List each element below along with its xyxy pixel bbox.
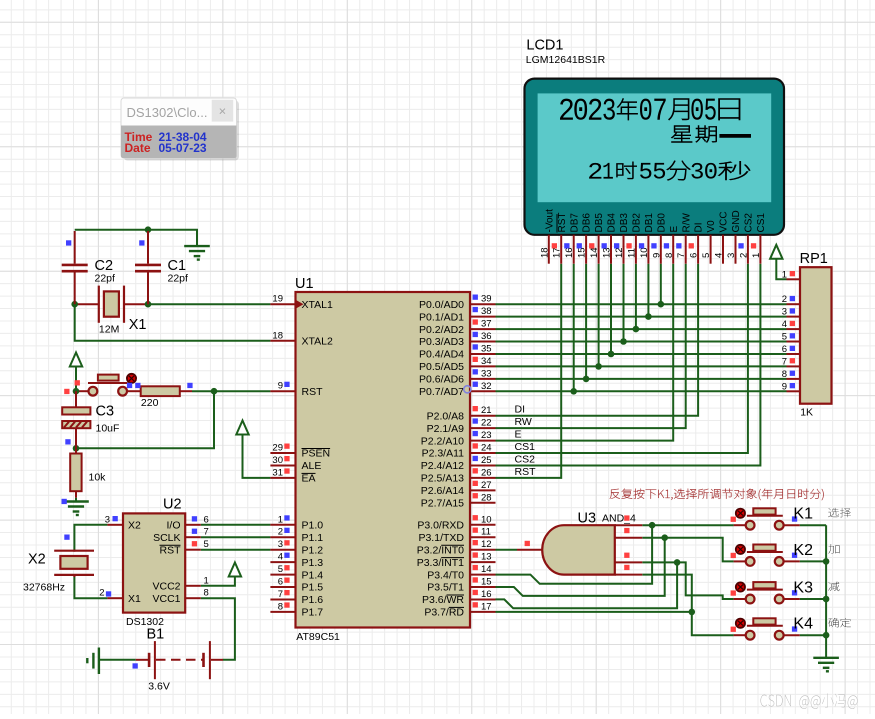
U1 pin 4 (P1.3)	[270, 552, 323, 569]
wire RW net (U1 P2.1 to LCD pin7)	[496, 264, 686, 428]
RP1 pin 6	[782, 344, 800, 355]
svg-text:38: 38	[481, 306, 492, 317]
U1 pin 10 (P3.0/RXD)	[417, 514, 495, 531]
crystal X2 32768Hz	[54, 550, 94, 578]
LCD1 pin 15 (DB6)	[577, 213, 593, 264]
svg-text:8: 8	[278, 601, 283, 612]
svg-text:5: 5	[782, 332, 787, 343]
svg-text:32768Hz: 32768Hz	[23, 582, 65, 594]
wire AND output to U1 P3.2/INT0	[496, 549, 518, 551]
svg-text:DS1302\Clo...: DS1302\Clo...	[127, 105, 208, 120]
label 减 (K3)	[828, 582, 839, 591]
svg-text:PSEN: PSEN	[302, 448, 331, 460]
wire LCD DB2 column	[635, 264, 637, 329]
wire P0.7/AD7 net (U1 to LCD DB7 and RP1.9)	[496, 390, 787, 392]
U1 pin 13 (P3.3/INT1)	[417, 552, 496, 569]
wire U2 VCC1 to battery	[201, 598, 235, 660]
wire U2 I/O to U1 P1.0	[201, 524, 271, 526]
svg-text:P1.7: P1.7	[302, 607, 324, 619]
svg-text:18: 18	[272, 330, 283, 341]
svg-text:DB4: DB4	[607, 213, 618, 233]
push button K1	[731, 506, 813, 530]
svg-text:×: ×	[219, 104, 227, 119]
U1 pin 6 (P1.5)	[270, 577, 323, 594]
svg-text:17: 17	[552, 247, 563, 258]
LCD1 pin 5 (V0)	[701, 220, 717, 264]
capacitor C1	[135, 231, 188, 304]
power VCC arrow (reset)	[70, 353, 82, 392]
AND gate U3 (AND_4, mirrored)	[542, 511, 636, 575]
U2 pin 3 (X2)	[105, 514, 141, 531]
svg-text:39: 39	[481, 294, 492, 305]
svg-text:P2.0/A8: P2.0/A8	[427, 410, 465, 422]
junction DB6/P0.6	[583, 376, 590, 383]
U1 pin 34 (P0.5/AD5)	[419, 356, 495, 373]
svg-text:K3: K3	[793, 580, 813, 597]
junction DB5/P0.5	[595, 363, 602, 370]
LCD1 pin 9 (DB0)	[651, 213, 667, 264]
junction K1/T0	[649, 522, 656, 529]
svg-text:12: 12	[614, 247, 625, 258]
wire XTAL1 net (crystal to U1.19)	[75, 303, 271, 305]
svg-text:05-07-23: 05-07-23	[159, 141, 207, 155]
svg-text:RST: RST	[160, 544, 182, 556]
U1 pin 35 (P0.4/AD4)	[419, 344, 495, 361]
svg-text:7: 7	[782, 356, 787, 367]
svg-text:VCC1: VCC1	[152, 593, 180, 605]
junction K3/WR	[674, 559, 681, 566]
junction DB7/P0.7	[570, 388, 577, 395]
svg-text:16: 16	[564, 247, 575, 258]
svg-text:P0.1/AD1: P0.1/AD1	[419, 311, 464, 323]
U1 pin 25 (P2.4/A12)	[421, 455, 496, 472]
svg-text:28: 28	[481, 492, 492, 503]
svg-text:15: 15	[481, 577, 492, 588]
svg-text:RST: RST	[302, 386, 324, 398]
svg-text:4: 4	[278, 552, 283, 563]
svg-text:I/O: I/O	[166, 520, 180, 532]
wire battery negative to ground	[99, 659, 136, 661]
svg-text:K4: K4	[793, 616, 813, 633]
svg-text:P0.3/AD3: P0.3/AD3	[419, 336, 464, 348]
junction DB2/P0.2	[633, 326, 640, 333]
svg-text:XTAL2: XTAL2	[302, 336, 333, 348]
wire XTAL top net C2-C1-ground	[75, 230, 197, 246]
svg-text:U3: U3	[578, 511, 597, 527]
svg-text:X2: X2	[128, 520, 141, 532]
U1 pin 39 (P0.0/AD0)	[419, 294, 495, 311]
wire P0.0/AD0 net (U1 to LCD DB0 and RP1.2)	[496, 303, 787, 305]
LCD1 pin 4 (VCC)	[714, 211, 730, 263]
svg-text:36: 36	[481, 331, 492, 342]
power VCC arrow (U1 EA)	[236, 421, 270, 478]
resistor 220	[141, 386, 180, 409]
svg-text:AT89C51: AT89C51	[296, 631, 340, 643]
U1 pin 18 (XTAL2)	[270, 330, 333, 347]
svg-text:Date: Date	[125, 141, 151, 155]
U1 pin 21 (P2.0/A8)	[427, 405, 496, 422]
svg-text:10k: 10k	[89, 472, 107, 484]
LCD1 pin 8 (E)	[664, 226, 680, 264]
svg-text:7: 7	[676, 253, 687, 258]
RP1 pin 8	[782, 369, 800, 380]
junction C3/10k	[73, 445, 80, 452]
U1 pin 5 (P1.4)	[270, 564, 323, 581]
push button K3	[731, 580, 813, 604]
U1 pin 23 (P2.2/A10)	[421, 430, 496, 447]
RP1 pin 7	[782, 356, 800, 367]
ground (battery, left-pointing)	[87, 648, 99, 675]
U1 pin 8 (P1.7)	[270, 601, 323, 618]
U1 pin 29 (PSEN)	[270, 443, 330, 460]
wire LCD DB3 column	[623, 264, 625, 342]
svg-text:P0.5/AD5: P0.5/AD5	[419, 361, 464, 373]
wire LCD DB1 column	[647, 264, 649, 317]
wire U2 RST to U1 P1.2	[201, 549, 271, 551]
svg-text:5: 5	[278, 564, 283, 575]
svg-text:P3.0/RXD: P3.0/RXD	[417, 520, 464, 532]
svg-text:6: 6	[782, 344, 787, 355]
svg-text:5: 5	[204, 539, 209, 550]
junction rail/K4	[823, 632, 830, 639]
power VCC arrow (U2 VCC2)	[201, 563, 241, 586]
svg-text:P2.2/A10: P2.2/A10	[421, 435, 464, 447]
label X2	[28, 552, 46, 568]
svg-text:15: 15	[577, 247, 588, 258]
U1 pin 38 (P0.1/AD1)	[419, 306, 495, 323]
svg-text:31: 31	[272, 467, 283, 478]
U1 pin 32 (P0.7/AD7)	[419, 381, 495, 398]
svg-text:220: 220	[141, 397, 159, 409]
U1 pin 11 (P3.1/TXD)	[418, 527, 495, 544]
svg-text:P3.2/INT0: P3.2/INT0	[417, 544, 464, 556]
junction rail/K2	[823, 558, 830, 565]
svg-text:23: 23	[481, 430, 492, 441]
junction X1 right	[145, 301, 152, 308]
LCD1 pin 1 (CS1)	[751, 213, 767, 264]
watermark CSDN	[761, 693, 858, 708]
svg-text:P0.0/AD0: P0.0/AD0	[419, 299, 464, 311]
U1 pin 36 (P0.3/AD3)	[419, 331, 495, 348]
wire DI net (U1 P2.0 to LCD pin6)	[496, 264, 699, 416]
label 选择 (K1)	[828, 508, 851, 517]
svg-text:21: 21	[481, 405, 492, 416]
svg-text:4: 4	[782, 319, 787, 330]
wire P0.1/AD1 net (U1 to LCD DB1 and RP1.3)	[496, 316, 787, 318]
svg-text:10: 10	[639, 247, 650, 258]
svg-text:P3.7/RD: P3.7/RD	[424, 607, 464, 619]
U1 pin 16 (P3.6/WR)	[422, 589, 496, 606]
svg-text:DB1: DB1	[644, 213, 655, 233]
svg-text:2: 2	[738, 253, 749, 258]
LCD1 pin 12 (DB3)	[614, 213, 630, 264]
svg-text:P3.3/INT1: P3.3/INT1	[417, 557, 464, 569]
U1 pin 33 (P0.6/AD6)	[419, 368, 495, 385]
U1 pin 3 (P1.2)	[270, 539, 323, 556]
svg-text:R/W: R/W	[681, 213, 692, 233]
U1 pin 15 (P3.5/T1)	[427, 577, 495, 594]
annotation text: press K1 to select object to adjust	[610, 489, 824, 501]
svg-text:AND_4: AND_4	[602, 513, 636, 525]
state square (battery)	[133, 663, 138, 668]
net label CS2	[515, 453, 536, 465]
ground (10k)	[63, 498, 89, 515]
RP1 pin 5	[782, 332, 800, 343]
svg-text:LCD1: LCD1	[526, 38, 563, 54]
svg-text:P0.6/AD6: P0.6/AD6	[419, 374, 464, 386]
LCD1 pin 17 (RST)	[552, 213, 568, 264]
svg-text:RW: RW	[515, 416, 532, 428]
svg-text:P2.1/A9: P2.1/A9	[427, 423, 465, 435]
wire U2 SCLK to U1 P1.1	[201, 536, 271, 538]
svg-text:8: 8	[204, 588, 209, 599]
state squares (reset 220 resistor)	[127, 383, 193, 388]
wire K2 right terminal to rail	[800, 560, 826, 562]
svg-text:DB5: DB5	[594, 213, 605, 233]
junction X1 left	[71, 301, 78, 308]
svg-text:CS1: CS1	[756, 213, 767, 233]
LCD1 pin 6 (DI)	[689, 223, 705, 264]
svg-text:VCC: VCC	[719, 211, 730, 232]
U1 pin 24 (P2.3/A11)	[422, 443, 496, 460]
svg-text:10uF: 10uF	[96, 423, 120, 435]
U2 pin 7 (SCLK)	[153, 527, 209, 544]
junction DB0/P0.0	[658, 301, 665, 308]
push button K2	[731, 542, 813, 566]
svg-text:1: 1	[278, 514, 283, 525]
svg-text:8: 8	[782, 369, 787, 380]
wire AND in2 / K2 net	[642, 538, 733, 562]
svg-text:16: 16	[481, 589, 492, 600]
svg-text:P3.4/T0: P3.4/T0	[427, 569, 464, 581]
net label RST	[515, 466, 537, 478]
svg-text:6: 6	[278, 577, 283, 588]
battery B1 3.6V	[136, 627, 223, 693]
U3 input pin 3	[615, 553, 643, 563]
svg-text:P1.4: P1.4	[302, 569, 324, 581]
U2 pin 2 (X1)	[99, 588, 141, 605]
junction RST/R220	[211, 388, 218, 395]
svg-text:6: 6	[204, 514, 209, 525]
svg-text:P2.4/A12: P2.4/A12	[421, 460, 464, 472]
junction DB3/P0.3	[620, 338, 627, 345]
U3 input pin 1	[615, 515, 643, 525]
svg-text:5: 5	[701, 253, 712, 258]
junction K2/T1	[661, 534, 668, 541]
wire AND in3 / K3 net	[642, 562, 733, 599]
wire XTAL2 net (C2 to U1.18)	[75, 304, 271, 341]
ground (buttons rail)	[813, 658, 839, 672]
push button K4	[731, 616, 813, 640]
LCD1 pin 16 (DB7)	[564, 213, 580, 264]
wire P0.6/AD6 net (U1 to LCD DB6 and RP1.8)	[496, 378, 787, 380]
wire LCD DB5 column	[598, 264, 600, 367]
unconnected-pin marker at U1 pin 32	[464, 386, 471, 393]
svg-text:P2.3/A11: P2.3/A11	[422, 448, 465, 460]
wire P3.5/T1 jog to K2 net	[496, 538, 665, 596]
svg-text:P3.1/TXD: P3.1/TXD	[418, 532, 464, 544]
wire P3.6/WR jog to K3 net	[496, 562, 678, 608]
svg-text:P2.7/A15: P2.7/A15	[421, 498, 464, 510]
svg-text:RP1: RP1	[800, 251, 828, 267]
U3 input pin 2	[615, 528, 643, 538]
wire C3 bottom to RST net	[76, 391, 214, 448]
wire LCD DB6 column	[585, 264, 587, 379]
U1 pin 17 (P3.7/RD)	[424, 601, 495, 618]
svg-text:K1: K1	[793, 506, 813, 523]
wire K3 right terminal to rail	[800, 598, 826, 600]
U1 pin 22 (P2.1/A9)	[427, 418, 496, 435]
svg-text:1: 1	[782, 269, 787, 280]
wire K4 right terminal to rail	[800, 634, 826, 636]
svg-text:ALE: ALE	[302, 460, 322, 472]
svg-text:33: 33	[481, 368, 492, 379]
svg-text:29: 29	[272, 443, 283, 454]
svg-text:DB2: DB2	[632, 213, 643, 233]
svg-text:1: 1	[204, 575, 209, 586]
svg-text:3: 3	[726, 253, 737, 258]
svg-text:22pf: 22pf	[168, 273, 189, 285]
wire P3.4/T0 jog to K1 net	[496, 525, 653, 584]
state square (X2 crystal)	[64, 535, 69, 540]
U3 input pin 4	[615, 565, 643, 575]
U1 pin 28 (P2.7/A15)	[421, 492, 496, 509]
svg-text:E: E	[515, 428, 522, 440]
svg-text:32: 32	[481, 381, 492, 392]
svg-text:P1.3: P1.3	[302, 557, 324, 569]
svg-text:P1.6: P1.6	[302, 594, 324, 606]
wire CS2 net (U1 P2.4 to LCD pin1)	[496, 264, 761, 466]
svg-text:30: 30	[272, 455, 283, 466]
svg-text:3: 3	[782, 307, 787, 318]
svg-text:E: E	[669, 226, 680, 233]
wire LCD DB0 column	[660, 264, 662, 305]
svg-text:GND: GND	[731, 210, 742, 232]
label 确定 (K4)	[828, 618, 851, 627]
DS1302 clock popup window	[121, 98, 239, 161]
state square (10k ground)	[62, 499, 67, 504]
svg-text:K2: K2	[793, 542, 813, 559]
wire P3.7/RD to K4 net	[496, 611, 692, 613]
net label RW	[515, 416, 532, 428]
wire P0.4/AD4 net (U1 to LCD DB4 and RP1.6)	[496, 353, 787, 355]
power VCC arrow (RP1 pin1)	[770, 245, 786, 279]
svg-text:RST: RST	[515, 466, 537, 478]
wire LCD DB7 column	[573, 264, 575, 392]
LCD screen text line 2: weekday	[671, 126, 751, 143]
svg-text:P3.5/T1: P3.5/T1	[427, 582, 464, 594]
svg-text:DB6: DB6	[582, 213, 593, 233]
LCD screen text line 3: time	[589, 161, 750, 180]
state square (C2 top)	[66, 240, 71, 245]
label 加 (K2)	[828, 544, 839, 553]
label 32768Hz	[23, 582, 65, 594]
capacitor C2	[62, 231, 115, 304]
LCD1 pin 2 (CS2)	[738, 213, 754, 264]
svg-text:7: 7	[278, 589, 283, 600]
svg-text:P2.5/A13: P2.5/A13	[421, 473, 464, 485]
junction rail/K3	[823, 596, 830, 603]
svg-text:2: 2	[782, 294, 787, 305]
wire K1 right terminal to rail	[800, 524, 826, 526]
U2 pin 1 (VCC2)	[152, 575, 208, 592]
LCD1 pin 14 (DB5)	[589, 213, 605, 264]
junction DB4/P0.4	[608, 351, 615, 358]
svg-text:DB7: DB7	[569, 213, 580, 233]
svg-text:11: 11	[481, 527, 491, 538]
U2 pin 6 (I/O)	[166, 514, 208, 531]
svg-text:X2: X2	[28, 552, 46, 568]
push button (reset)	[88, 374, 136, 396]
junction K4/RD	[689, 609, 696, 616]
svg-text:P1.1: P1.1	[302, 532, 324, 544]
U2 pin 8 (VCC1)	[152, 588, 208, 605]
U2 pin 5 (RST)	[160, 539, 209, 556]
svg-text:DB3: DB3	[619, 213, 630, 233]
svg-text:27: 27	[481, 480, 492, 491]
U3 output pin (to INT0)	[517, 541, 542, 550]
svg-text:CS2: CS2	[515, 453, 536, 465]
U1 pin 12 (P3.2/INT0)	[417, 539, 496, 556]
svg-text:3.6V: 3.6V	[148, 681, 170, 693]
U1 pin 2 (P1.1)	[270, 527, 323, 544]
wire RST net (U1 P2.5 to LCD pin17)	[496, 264, 562, 478]
svg-text:2: 2	[278, 527, 283, 538]
U1 pin 37 (P0.2/AD2)	[419, 319, 495, 336]
RP1 pin 1	[782, 269, 800, 280]
svg-text:P1.0: P1.0	[302, 520, 324, 532]
U1 pin 19 (XTAL1)	[270, 294, 333, 311]
wire U2.X2 to crystal X2 top	[74, 525, 107, 550]
IC U2 DS1302	[123, 497, 185, 629]
U1 pin 30 (ALE)	[270, 455, 321, 472]
svg-text:P2.6/A14: P2.6/A14	[421, 485, 464, 497]
net label E	[515, 428, 522, 440]
wire AND in4 / K4 net	[642, 575, 733, 636]
svg-text:P3.6/WR: P3.6/WR	[422, 594, 464, 606]
svg-text:EA: EA	[302, 473, 316, 485]
ground (top, near C1)	[184, 246, 210, 260]
svg-text:25: 25	[481, 455, 492, 466]
svg-text:19: 19	[272, 294, 283, 305]
U1 pin 7 (P1.6)	[270, 589, 323, 606]
wire buttons right rail to ground	[825, 525, 827, 658]
svg-text:4: 4	[714, 253, 725, 258]
svg-text:U1: U1	[295, 276, 314, 292]
wire P0.5/AD5 net (U1 to LCD DB5 and RP1.7)	[496, 365, 787, 367]
wire E net (U1 P2.2 to LCD pin8)	[496, 264, 674, 441]
svg-text:X1: X1	[129, 317, 147, 333]
net label CS1	[515, 441, 536, 453]
U1 pin 14 (P3.4/T0)	[427, 564, 495, 581]
svg-text:3: 3	[278, 539, 283, 550]
LCD1 pin 7 (R/W)	[676, 213, 692, 264]
svg-text:DI: DI	[515, 404, 526, 416]
svg-text:14: 14	[481, 564, 492, 575]
svg-text:V0: V0	[706, 220, 717, 233]
svg-text:22: 22	[481, 418, 492, 429]
svg-text:X1: X1	[128, 593, 141, 605]
svg-text:SCLK: SCLK	[153, 532, 180, 544]
svg-text:9: 9	[651, 253, 662, 258]
svg-text:6: 6	[689, 253, 700, 258]
junction reset button/C3	[73, 388, 80, 395]
svg-text:-Vout: -Vout	[544, 209, 555, 233]
LCD1 pin 13 (DB4)	[602, 213, 618, 264]
wire AND in1 / K1 net	[642, 524, 733, 526]
svg-text:34: 34	[481, 356, 492, 367]
wire LCD DB4 column	[610, 264, 612, 354]
